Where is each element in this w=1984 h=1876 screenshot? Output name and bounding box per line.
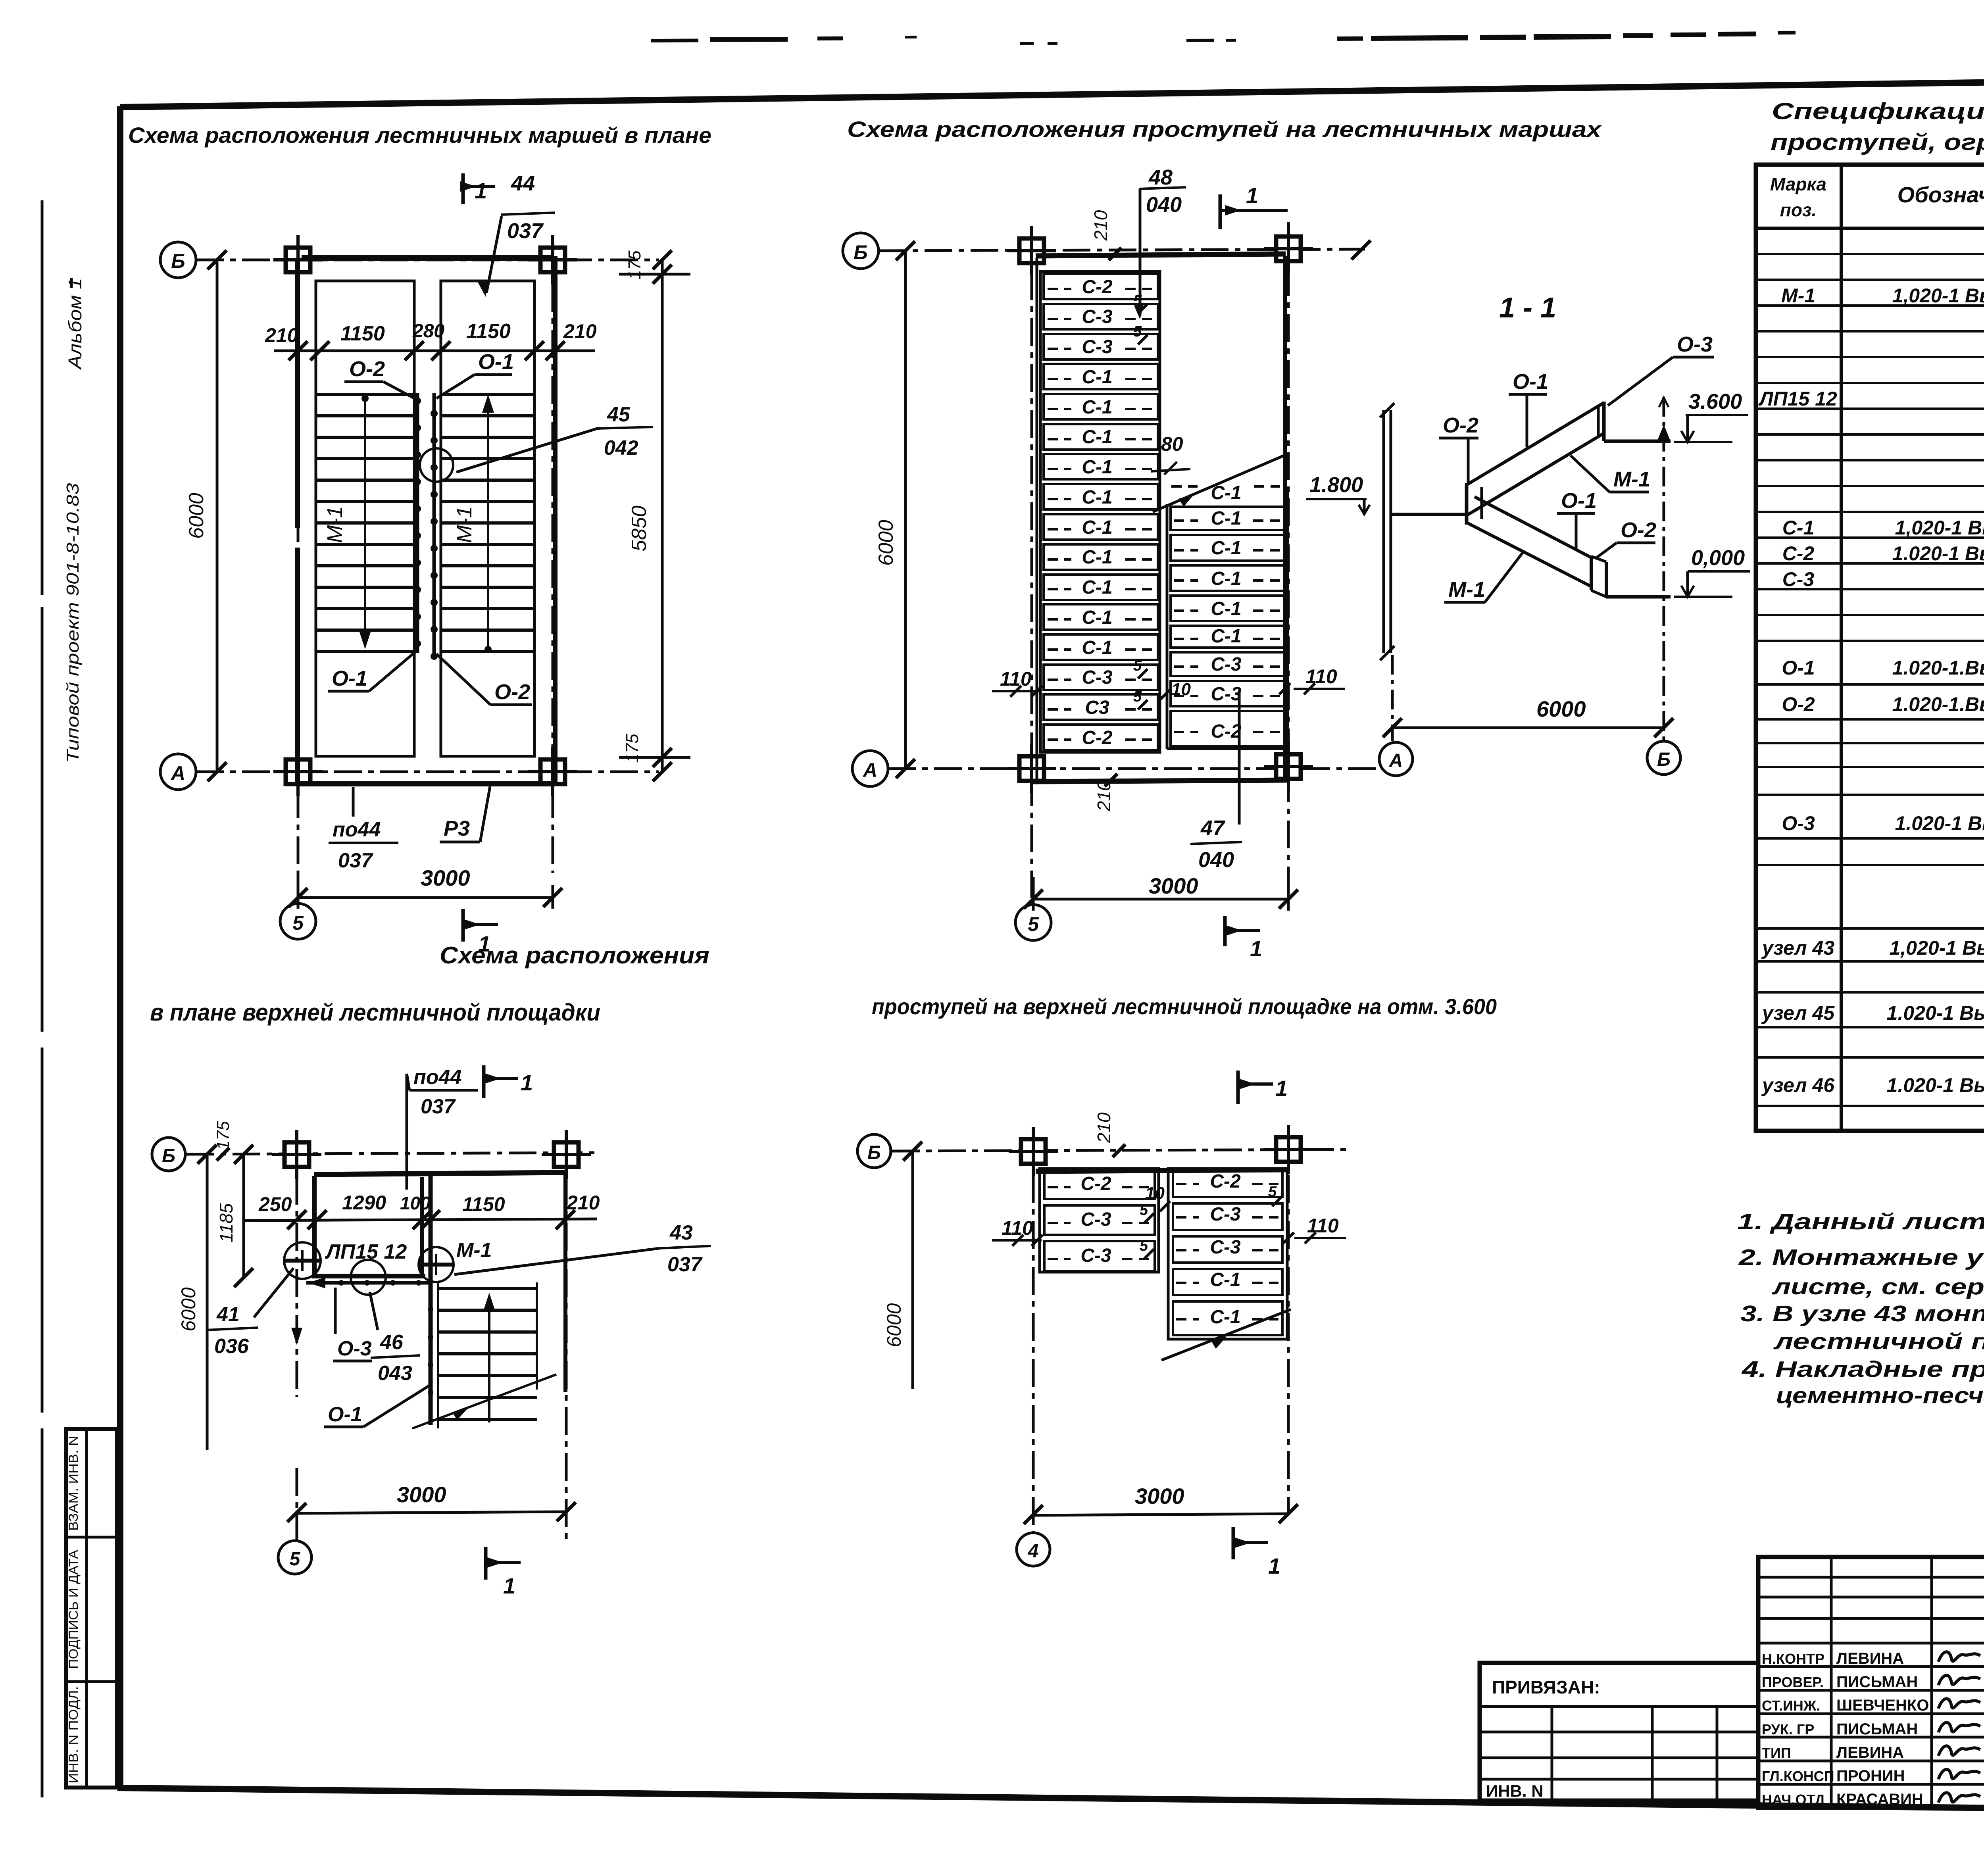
- svg-text:цементно-песчаного раствора: цементно-песчаного раствора марки 100 .: [1776, 1383, 1984, 1408]
- svg-text:С-3: С-3: [1782, 568, 1815, 590]
- svg-text:А: А: [1389, 750, 1403, 771]
- plan3 break line diagonal: [412, 1374, 556, 1428]
- svg-text:5: 5: [1028, 913, 1039, 935]
- svg-text:по44: по44: [333, 818, 381, 841]
- svg-text:О-3: О-3: [337, 1337, 372, 1360]
- plan3 flight treads: [437, 1282, 439, 1428]
- svg-text:037: 037: [507, 219, 544, 243]
- svg-text:лестничной площадке до монт: лестничной площадке до монтажа.: [1773, 1329, 1984, 1354]
- svg-text:040: 040: [1146, 193, 1182, 217]
- svg-text:С-1: С-1: [1082, 547, 1112, 568]
- svg-text:ИНВ. N: ИНВ. N: [1486, 1782, 1544, 1800]
- svg-text:Альбом 1: Альбом 1: [65, 278, 85, 370]
- section: upper flight right cap: [1602, 402, 1606, 441]
- svg-text:С-1: С-1: [1210, 1269, 1240, 1290]
- svg-text:1150: 1150: [462, 1193, 505, 1215]
- svg-text:5: 5: [292, 912, 304, 934]
- svg-text:ПИСЬМАН: ПИСЬМАН: [1836, 1720, 1918, 1738]
- plan3 dim 6000: [206, 1154, 209, 1450]
- plan2 grid axis B: [879, 249, 1365, 251]
- svg-text:А: А: [170, 762, 185, 784]
- svg-text:5: 5: [1140, 1202, 1148, 1219]
- svg-text:С-3: С-3: [1211, 654, 1242, 675]
- svg-text:С-1: С-1: [1211, 538, 1241, 559]
- plan3 section mark 1 top: [482, 1065, 486, 1098]
- svg-text:С-1: С-1: [1082, 487, 1112, 508]
- svg-text:С-2: С-2: [1080, 1173, 1111, 1194]
- svg-text:2. Монтажные узлы, замаркиров: 2. Монтажные узлы, замаркированные на да…: [1738, 1245, 1984, 1270]
- plan2 left tread stack: [1044, 274, 1158, 299]
- svg-text:по44: по44: [413, 1066, 461, 1089]
- section: intermediate landing line at +1.800: [1391, 513, 1468, 516]
- svg-text:узел 43: узел 43: [1761, 937, 1834, 959]
- svg-text:С-3: С-3: [1210, 1204, 1241, 1225]
- svg-text:210: 210: [563, 320, 597, 342]
- plan1 horizontal dimension row: 210/1150/280/1150/210: [274, 350, 595, 352]
- plan3 walk arrow up: [488, 1298, 490, 1422]
- svg-text:3000: 3000: [1149, 873, 1198, 898]
- svg-text:О-2: О-2: [349, 357, 385, 381]
- svg-text:Р3: Р3: [444, 817, 470, 840]
- section: left landing slab double line: [1382, 410, 1385, 653]
- svg-text:175: 175: [625, 250, 644, 280]
- bottom-left margin table (Взам.инв / Подпись и дата / Инв.№ подл.): [66, 1429, 117, 1788]
- section grid circle B: [1647, 741, 1680, 775]
- svg-text:1: 1: [1275, 1076, 1288, 1101]
- svg-text:Обозначение: Обозначение: [1897, 182, 1984, 207]
- svg-text:Б: Б: [1657, 749, 1671, 770]
- section: upper flight M-1 band: [1467, 403, 1604, 485]
- svg-text:ВЗАМ. ИНВ. N: ВЗАМ. ИНВ. N: [66, 1436, 81, 1531]
- svg-text:С-1: С-1: [1211, 626, 1241, 647]
- plan1 column squares: [286, 248, 310, 272]
- svg-text:М-1: М-1: [323, 506, 347, 543]
- plan4 column verticals: [1032, 1129, 1035, 1532]
- svg-text:48: 48: [1148, 165, 1173, 189]
- plan2 dim 3000 bottom: [1033, 898, 1288, 901]
- plan4 section mark 1 top: [1236, 1071, 1240, 1104]
- svg-text:С-3: С-3: [1082, 336, 1113, 358]
- plan3 section mark 1 bottom: [484, 1547, 488, 1580]
- svg-text:4. Накладные проступи укл: 4. Накладные проступи укладываются по сл…: [1742, 1357, 1984, 1382]
- section: ground line at 0.000: [1606, 595, 1671, 599]
- svg-text:Марка: Марка: [1770, 174, 1826, 194]
- svg-text:1: 1: [521, 1070, 533, 1095]
- section: axis A dash line below left element: [1391, 655, 1394, 741]
- svg-text:1: 1: [1268, 1553, 1280, 1578]
- svg-text:С-2: С-2: [1082, 727, 1113, 748]
- svg-text:А: А: [862, 759, 877, 781]
- plan2 section mark 1 bottom: [1223, 916, 1227, 946]
- svg-text:3. В узле 43 монтажную д: 3. В узле 43 монтажную деталь МС-27 прив…: [1740, 1301, 1984, 1326]
- plan4 column squares: [1021, 1139, 1046, 1164]
- svg-text:С3: С3: [1085, 697, 1109, 718]
- svg-text:037: 037: [338, 849, 373, 872]
- plan3 walls: middle wall / М-1 box left edge: [429, 1176, 433, 1425]
- svg-text:С-3: С-3: [1080, 1209, 1111, 1230]
- svg-text:О-3: О-3: [1677, 333, 1713, 356]
- plan2 section mark 1 top: [1219, 194, 1222, 229]
- svg-text:Схема расположения: Схема расположения: [440, 942, 709, 969]
- svg-text:С-1: С-1: [1211, 508, 1241, 529]
- svg-text:6000: 6000: [177, 1287, 200, 1331]
- svg-text:037: 037: [421, 1095, 456, 1118]
- svg-text:5: 5: [1133, 688, 1142, 705]
- svg-text:С-2: С-2: [1210, 1171, 1241, 1192]
- svg-text:С-1: С-1: [1211, 598, 1241, 619]
- svg-text:Спецификация лестничных марш: Спецификация лестничных маршей, площадок…: [1772, 98, 1984, 124]
- plan1 section mark 1 top with fraction 44/037: [461, 173, 465, 204]
- svg-text:210: 210: [566, 1192, 600, 1214]
- svg-text:ЛЕВИНА: ЛЕВИНА: [1836, 1744, 1904, 1761]
- svg-text:6000: 6000: [875, 520, 898, 566]
- plan2 column squares: [1019, 238, 1044, 263]
- plan1 handrail O-2 left (with posts): [416, 393, 419, 653]
- svg-text:3000: 3000: [397, 1482, 446, 1507]
- svg-text:1.020-1.Вып. 8-1: 1.020-1.Вып. 8-1: [1892, 657, 1984, 679]
- plan1 walls: [302, 255, 552, 261]
- plan2 grid circle 5: [1015, 905, 1051, 940]
- svg-text:6000: 6000: [883, 1303, 905, 1347]
- svg-text:46: 46: [380, 1331, 404, 1354]
- svg-text:6000: 6000: [1536, 696, 1586, 721]
- svg-text:О-1: О-1: [1561, 489, 1597, 513]
- plan3 walls: right wall: [563, 1174, 567, 1392]
- svg-text:037: 037: [667, 1253, 703, 1276]
- plan4 left tread stack C-2/C-3/C-3: [1040, 1169, 1159, 1272]
- svg-text:С-1: С-1: [1082, 397, 1112, 418]
- svg-text:110: 110: [1000, 668, 1032, 690]
- section: lower flight M-1 band: [1475, 497, 1591, 557]
- plan3 dim row 250/1290/100/1150/210: [244, 1219, 597, 1221]
- svg-text:О-2: О-2: [494, 680, 530, 704]
- section dim 6000: [1392, 727, 1664, 729]
- plan1 grid axis A line: [196, 771, 659, 773]
- svg-text:10: 10: [1171, 680, 1191, 699]
- svg-text:М-1: М-1: [456, 1239, 492, 1262]
- svg-text:040: 040: [1198, 848, 1234, 872]
- svg-text:С-3: С-3: [1082, 667, 1113, 688]
- svg-text:О-1: О-1: [1513, 370, 1548, 394]
- plan2 grid axis A: [888, 767, 1383, 770]
- svg-text:С-2: С-2: [1082, 277, 1113, 298]
- svg-text:210: 210: [265, 324, 298, 346]
- svg-text:С-1: С-1: [1782, 517, 1815, 539]
- plan2 column verticals: [1030, 226, 1033, 905]
- plan4 dim 3000: [1033, 1514, 1288, 1515]
- svg-text:1185: 1185: [216, 1203, 236, 1242]
- svg-text:3000: 3000: [421, 865, 470, 890]
- main drawing frame: [117, 106, 123, 1789]
- svg-text:ПРОВЕР.: ПРОВЕР.: [1762, 1674, 1824, 1690]
- svg-text:210: 210: [1090, 210, 1111, 241]
- plan2 right tread stack: [1171, 507, 1285, 530]
- svg-text:80: 80: [1161, 433, 1183, 455]
- svg-text:47: 47: [1200, 816, 1226, 840]
- svg-text:1.020-1 Вып. 10-1: 1.020-1 Вып. 10-1: [1887, 1074, 1984, 1096]
- svg-text:проступей, ограждений, соеди: проступей, ограждений, соединительных де…: [1771, 129, 1984, 155]
- svg-text:ЛП15 12: ЛП15 12: [1758, 388, 1837, 410]
- svg-text:О-2: О-2: [1782, 693, 1815, 715]
- svg-text:проступей на верхней лестнично: проступей на верхней лестничной площадке…: [872, 994, 1497, 1019]
- plan1 grid circle A: [160, 754, 196, 790]
- plan1 grid circle 5: [280, 903, 316, 939]
- svg-text:М-1: М-1: [452, 506, 476, 543]
- plan4 top wall: [1036, 1170, 1287, 1171]
- plan1 dimension 5850 / 175 right: [661, 261, 664, 771]
- svg-text:узел 46: узел 46: [1761, 1074, 1835, 1096]
- plan1 column line 5 vertical: [297, 238, 300, 905]
- svg-text:Б: Б: [162, 1146, 175, 1167]
- svg-text:110: 110: [1307, 1215, 1339, 1237]
- svg-text:1: 1: [475, 178, 487, 203]
- svg-text:О-2: О-2: [1443, 413, 1478, 437]
- svg-text:Схема расположения проступей н: Схема расположения проступей на лестничн…: [847, 117, 1602, 142]
- svg-text:1,020-1 Вып.7-1: 1,020-1 Вып.7-1: [1895, 517, 1984, 539]
- svg-text:1.020-1.Вып. 8-1: 1.020-1.Вып. 8-1: [1892, 693, 1984, 715]
- svg-text:С-3: С-3: [1211, 684, 1242, 705]
- spec table header row: [1756, 227, 1984, 230]
- plan1 treads left flight: [316, 393, 414, 396]
- svg-text:М-1: М-1: [1781, 284, 1815, 307]
- svg-text:4: 4: [1028, 1541, 1039, 1562]
- svg-text:5850: 5850: [628, 506, 651, 552]
- svg-text:Б: Б: [854, 241, 867, 263]
- svg-text:С-3: С-3: [1210, 1237, 1241, 1258]
- svg-text:ШЕВЧЕНКО: ШЕВЧЕНКО: [1836, 1697, 1929, 1714]
- title block: signatures table: [1758, 1557, 1984, 1808]
- svg-text:110: 110: [1002, 1217, 1033, 1239]
- plan3 handrail O-3 with posts and arrow: [306, 1281, 431, 1285]
- svg-text:5: 5: [1133, 323, 1142, 340]
- svg-text:ТИП: ТИП: [1762, 1745, 1791, 1761]
- plan1 handrail O-1 right (with posts): [433, 393, 436, 653]
- svg-text:036: 036: [214, 1335, 249, 1358]
- svg-text:С-1: С-1: [1082, 607, 1112, 628]
- svg-text:6000: 6000: [185, 493, 208, 539]
- svg-text:Б: Б: [171, 250, 185, 272]
- spec table column lines: [1840, 165, 1843, 1131]
- svg-text:О-1: О-1: [478, 350, 514, 374]
- svg-text:5: 5: [290, 1549, 301, 1570]
- svg-text:1. Данный лист см. совмест: 1. Данный лист см. совместно с листом 39…: [1737, 1209, 1984, 1234]
- svg-text:СТ.ИНЖ.: СТ.ИНЖ.: [1762, 1697, 1820, 1714]
- svg-text:С-1: С-1: [1210, 1307, 1240, 1328]
- svg-text:ПИСЬМАН: ПИСЬМАН: [1836, 1673, 1918, 1691]
- plan3 dim 3000 bottom: [297, 1512, 566, 1513]
- svg-text:С-1: С-1: [1082, 637, 1112, 658]
- section grid circle A: [1379, 742, 1413, 776]
- svg-text:Б: Б: [867, 1142, 881, 1163]
- plan1 walk line right flight (up): [487, 401, 489, 650]
- plan3 grid circle 5 bottom: [278, 1541, 311, 1574]
- svg-text:С-1: С-1: [1082, 577, 1112, 598]
- spec table row lines: [1756, 253, 1984, 255]
- svg-text:210: 210: [1094, 1112, 1114, 1143]
- plan4 break line diagonal: [1161, 1309, 1291, 1360]
- plan1 left flight outline M-1: [316, 281, 414, 756]
- plan4 dim 6000: [911, 1151, 914, 1389]
- svg-text:С-1: С-1: [1082, 427, 1112, 448]
- svg-text:3.600: 3.600: [1688, 390, 1742, 413]
- svg-text:ЛЕВИНА: ЛЕВИНА: [1836, 1650, 1904, 1667]
- svg-text:043: 043: [378, 1362, 412, 1385]
- plan1 grid axis B line: [196, 259, 659, 261]
- svg-text:43: 43: [669, 1221, 693, 1244]
- svg-text:ПРИВЯЗАН:: ПРИВЯЗАН:: [1492, 1677, 1600, 1697]
- svg-text:О-1: О-1: [328, 1403, 362, 1426]
- svg-text:1 - 1: 1 - 1: [1499, 292, 1556, 324]
- svg-text:ПРОНИН: ПРОНИН: [1836, 1767, 1905, 1785]
- svg-text:НАЧ.ОТД: НАЧ.ОТД: [1762, 1791, 1825, 1808]
- svg-text:1.020-1 Вып. 7-1: 1.020-1 Вып. 7-1: [1892, 542, 1984, 565]
- plan2 dim 6000: [904, 252, 907, 767]
- plan3 grid line 5 arrow end: [291, 1328, 302, 1345]
- svg-text:1.800: 1.800: [1309, 473, 1363, 497]
- svg-text:5: 5: [1140, 1238, 1148, 1254]
- outer sheet edge left: [41, 200, 44, 595]
- svg-text:100: 100: [400, 1193, 431, 1213]
- plan1 right flight outline M-1: [441, 281, 534, 756]
- plan3 grid axis B: [186, 1153, 595, 1154]
- svg-text:1,020-1 Вып.10-1: 1,020-1 Вып.10-1: [1890, 937, 1984, 959]
- plan1 grid circle B: [160, 242, 196, 278]
- svg-text:КРАСАВИН: КРАСАВИН: [1836, 1791, 1923, 1808]
- svg-text:175: 175: [623, 734, 642, 763]
- plan4 right tread stack C-2/C-3/C-3/C-1/C-1: [1168, 1169, 1287, 1339]
- svg-text:5: 5: [1268, 1184, 1277, 1200]
- svg-text:О-1: О-1: [1782, 657, 1815, 679]
- title block: annex ПРИВЯЗАН: [1480, 1663, 1758, 1801]
- section: axis B dash-dot vertical: [1663, 397, 1665, 741]
- svg-text:С-3: С-3: [1082, 306, 1113, 327]
- svg-text:1: 1: [503, 1573, 515, 1598]
- plan4 grid axis B: [892, 1149, 1349, 1151]
- svg-text:0,000: 0,000: [1691, 546, 1745, 570]
- svg-text:РУК. ГР: РУК. ГР: [1762, 1721, 1814, 1738]
- svg-text:М-1: М-1: [1448, 578, 1485, 602]
- svg-text:1: 1: [1246, 183, 1258, 208]
- svg-text:С-2: С-2: [1211, 721, 1242, 742]
- spec table outer frame: [1756, 165, 1984, 1131]
- svg-text:поз.: поз.: [1780, 200, 1817, 220]
- plan3 node circles: [284, 1242, 321, 1279]
- svg-text:Н.КОНТР: Н.КОНТР: [1762, 1651, 1824, 1667]
- svg-text:С-3: С-3: [1080, 1245, 1111, 1266]
- plan3 dim 1185: [242, 1154, 245, 1278]
- svg-text:3000: 3000: [1135, 1484, 1184, 1509]
- svg-text:М-1: М-1: [1613, 467, 1650, 491]
- plan3 posts on rail O-1: [428, 1307, 433, 1312]
- svg-text:О-1: О-1: [332, 667, 367, 690]
- plan2 break line diagonal: [1153, 456, 1284, 512]
- plan1 walk line left flight (down): [364, 398, 366, 643]
- svg-text:С-1: С-1: [1082, 457, 1112, 478]
- plan1 section mark 1 bottom: [461, 909, 465, 942]
- plan1 dimension 6000 left: [216, 262, 219, 770]
- svg-text:1: 1: [1250, 936, 1262, 961]
- plan3 column verticals: [296, 1131, 298, 1397]
- section: upper flight left cap: [1465, 483, 1469, 525]
- plan4 section mark 1 bottom: [1232, 1527, 1235, 1559]
- svg-text:250: 250: [258, 1193, 292, 1215]
- section: lower flight right cap: [1590, 556, 1593, 590]
- svg-text:О-3: О-3: [1782, 812, 1815, 834]
- svg-text:ИНВ. N ПОДЛ.: ИНВ. N ПОДЛ.: [66, 1686, 81, 1784]
- svg-text:Схема расположения лестничных: Схема расположения лестничных маршей в п…: [128, 123, 711, 148]
- title block: signature squiggles: [1938, 1652, 1980, 1662]
- svg-text:41: 41: [216, 1303, 240, 1326]
- svg-text:листе, см. серию 1. 020-1: листе, см. серию 1. 020-1 Вып. 10-1: [1771, 1274, 1984, 1299]
- plan1 treads right flight: [441, 393, 534, 396]
- svg-text:С-1: С-1: [1082, 367, 1112, 388]
- plan2 left tread stack outer box: [1040, 271, 1160, 752]
- svg-text:280: 280: [412, 321, 444, 342]
- plan3 column squares: [285, 1142, 309, 1167]
- svg-text:С-1: С-1: [1211, 568, 1241, 589]
- plan2 walls: [1036, 254, 1286, 256]
- section: landing line at 3.600: [1604, 440, 1671, 443]
- svg-text:Типовой проект 901-8-10.83: Типовой проект 901-8-10.83: [63, 483, 83, 763]
- svg-text:1.020-1 Вып. 10-1: 1.020-1 Вып. 10-1: [1887, 1002, 1984, 1024]
- svg-text:5: 5: [1133, 657, 1142, 674]
- svg-text:С-1: С-1: [1082, 517, 1112, 538]
- svg-text:ПОДПИСЬ И ДАТА: ПОДПИСЬ И ДАТА: [66, 1549, 81, 1669]
- svg-text:1150: 1150: [466, 320, 511, 343]
- svg-text:45: 45: [607, 403, 631, 426]
- svg-text:О-2: О-2: [1621, 518, 1656, 542]
- plan1 column line right vertical: [552, 238, 554, 873]
- svg-text:1150: 1150: [340, 322, 385, 345]
- svg-text:042: 042: [604, 436, 638, 459]
- plan3 landing box ЛП15 12: [312, 1176, 317, 1278]
- plan2 right tread stack outer box: [1166, 504, 1169, 749]
- svg-text:узел 45: узел 45: [1761, 1002, 1835, 1024]
- torn paper edge marks: [651, 38, 698, 42]
- svg-text:1,020-1 Вып. 7-1: 1,020-1 Вып. 7-1: [1892, 284, 1984, 307]
- plan4 grid circle 4: [1017, 1533, 1050, 1566]
- plan1 node circle (detail 45): [420, 448, 453, 482]
- svg-text:1290: 1290: [342, 1192, 386, 1214]
- svg-text:44: 44: [511, 171, 535, 195]
- plan1 dimension 3000 bottom: [298, 896, 553, 899]
- plan3 walls: top wall: [314, 1172, 565, 1174]
- section: filled triangle marker on axis B at landing: [1657, 425, 1671, 441]
- svg-text:110: 110: [1305, 665, 1337, 688]
- svg-text:в плане верхней лестничной: в плане верхней лестничной площадки: [150, 999, 600, 1026]
- svg-text:1.020-1 Вып.8-1: 1.020-1 Вып.8-1: [1895, 812, 1984, 834]
- svg-text:С-2: С-2: [1782, 542, 1815, 565]
- svg-text:10: 10: [1145, 1184, 1165, 1203]
- svg-text:ГЛ.КОНСП: ГЛ.КОНСП: [1762, 1768, 1834, 1784]
